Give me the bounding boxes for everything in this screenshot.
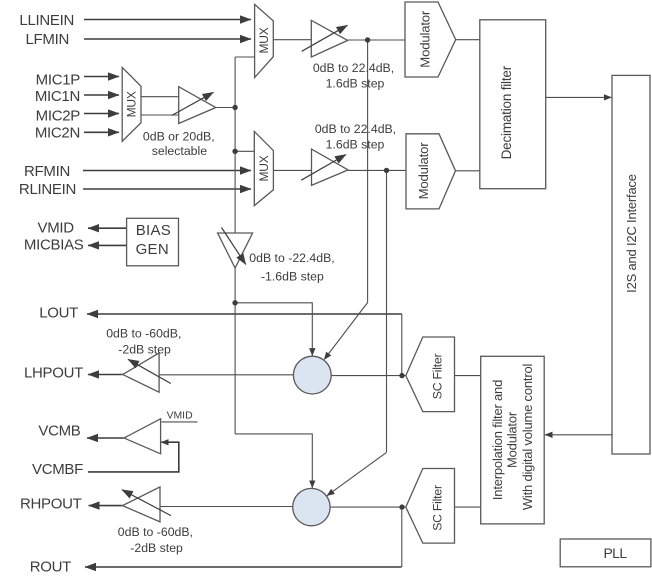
svg-text:MIC2N: MIC2N	[35, 124, 80, 141]
svg-text:0dB to 22.4dB,: 0dB to 22.4dB,	[315, 122, 396, 136]
svg-text:selectable: selectable	[152, 144, 208, 158]
svg-text:RLINEIN: RLINEIN	[19, 181, 76, 198]
svg-text:-2dB step: -2dB step	[130, 541, 183, 555]
svg-text:1.6dB step: 1.6dB step	[326, 77, 385, 91]
svg-text:MIC1N: MIC1N	[35, 88, 80, 105]
svg-text:Decimation filter: Decimation filter	[499, 65, 514, 159]
svg-text:VCMBF: VCMBF	[32, 461, 83, 478]
svg-text:MUX: MUX	[257, 27, 271, 53]
svg-text:VMID: VMID	[167, 410, 193, 421]
svg-text:-2dB step: -2dB step	[118, 343, 171, 357]
svg-text:-1.6dB step: -1.6dB step	[261, 269, 324, 283]
svg-text:Modulator: Modulator	[418, 10, 433, 68]
svg-text:MICBIAS: MICBIAS	[24, 237, 84, 254]
svg-text:With digital volume control: With digital volume control	[520, 364, 535, 511]
svg-text:PLL: PLL	[603, 545, 627, 561]
svg-text:SC Filter: SC Filter	[431, 485, 445, 531]
svg-text:0dB to -60dB,: 0dB to -60dB,	[118, 525, 193, 539]
svg-text:MIC2P: MIC2P	[36, 108, 81, 125]
svg-text:MIC1P: MIC1P	[36, 72, 81, 89]
svg-text:RFMIN: RFMIN	[24, 163, 70, 180]
svg-text:Interpolation filter and: Interpolation filter and	[490, 380, 505, 500]
svg-text:0dB to -60dB,: 0dB to -60dB,	[106, 326, 181, 340]
svg-text:RHPOUT: RHPOUT	[20, 496, 82, 513]
svg-text:GEN: GEN	[136, 241, 169, 258]
svg-text:LFMIN: LFMIN	[25, 31, 69, 48]
svg-text:Modulator: Modulator	[505, 411, 520, 468]
svg-text:1.6dB step: 1.6dB step	[326, 138, 385, 152]
svg-text:SC Filter: SC Filter	[431, 353, 445, 399]
svg-text:MUX: MUX	[257, 155, 271, 181]
svg-text:MUX: MUX	[125, 91, 139, 117]
svg-text:LHPOUT: LHPOUT	[24, 365, 83, 382]
svg-text:0dB to -22.4dB,: 0dB to -22.4dB,	[249, 251, 334, 265]
svg-text:ROUT: ROUT	[30, 559, 71, 576]
svg-text:VMID: VMID	[37, 219, 74, 236]
svg-text:BIAS: BIAS	[136, 222, 171, 239]
svg-text:0dB or 20dB,: 0dB or 20dB,	[143, 130, 215, 144]
svg-text:LOUT: LOUT	[39, 305, 78, 322]
svg-text:LLINEIN: LLINEIN	[19, 12, 74, 29]
svg-text:I2S and I2C Interface: I2S and I2C Interface	[624, 174, 639, 293]
svg-text:VCMB: VCMB	[38, 423, 80, 440]
svg-text:Modulator: Modulator	[416, 142, 431, 200]
svg-text:0dB to 22.4dB,: 0dB to 22.4dB,	[313, 61, 394, 75]
